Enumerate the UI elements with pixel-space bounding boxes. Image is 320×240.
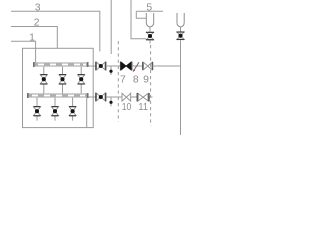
valve V5a (globe valve under funnel F1) — [146, 32, 154, 40]
valve 9 (gate valve) — [143, 62, 153, 70]
wire leader 3 — [11, 11, 100, 51]
wire leader 6 (from top edge to valve V5a) — [131, 0, 146, 39]
equipment box (item 2) — [23, 48, 94, 127]
pipe P2 (lower outlet) — [89, 96, 96, 98]
wire (dashed boundary line) — [117, 41, 119, 122]
funnel F2 — [177, 13, 184, 27]
valve V-g (globe valve on P1) — [96, 62, 106, 71]
item 8 (slash symbol) — [134, 62, 139, 70]
wire (drain line from V5b to bottom) — [180, 40, 182, 135]
wire (dashed capillary from V5a) — [149, 41, 151, 44]
manifold M2 — [27, 93, 89, 98]
wire leader 4 (from top edge) — [110, 0, 112, 54]
wire — [106, 65, 120, 67]
valve 7 (closed gate valve, filled) — [121, 62, 132, 71]
wire — [106, 96, 153, 98]
svg-text:10: 10 — [122, 102, 132, 113]
svg-text:9: 9 — [143, 74, 149, 85]
wire leader 1 — [11, 41, 36, 63]
manifold M1 — [33, 62, 89, 67]
svg-text:7: 7 — [120, 74, 126, 85]
valve V-c (top row globe valve) — [78, 67, 85, 94]
pipe P1 (upper outlet) — [89, 65, 96, 67]
valve V-a (top row globe valve) — [40, 67, 47, 94]
valve V-e (bottom row globe valve) — [52, 98, 59, 121]
svg-text:8: 8 — [133, 74, 139, 85]
valve 10 (gate valve) — [122, 93, 131, 101]
wire — [132, 65, 143, 67]
wire drop leg (no valve) — [86, 98, 88, 128]
funnel F1 — [146, 13, 153, 27]
wire leader 5 — [136, 10, 163, 12]
wire leader 2 — [11, 27, 57, 49]
valve V-h (globe valve on P2) — [96, 93, 106, 102]
valve V-d (bottom row globe valve) — [34, 98, 41, 121]
node drain stub on P2 — [110, 97, 112, 106]
valve V5b (globe valve under funnel F2) — [177, 32, 185, 40]
svg-text:11: 11 — [138, 102, 148, 113]
valve V-b (top row globe valve) — [59, 67, 66, 94]
valve V-f (bottom row globe valve) — [69, 98, 76, 121]
node drain stub on P1 — [110, 66, 112, 75]
wire — [153, 65, 181, 67]
valve 11 (gate valve) — [137, 93, 149, 102]
